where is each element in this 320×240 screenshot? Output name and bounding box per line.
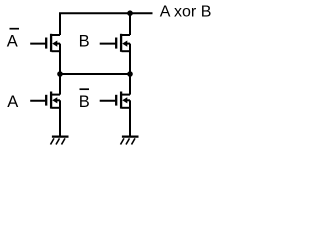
wire: middle rail	[60, 73, 130, 75]
transistor Q4 (gate B-bar, bottom-right)	[100, 92, 130, 109]
svg-text:A xor B: A xor B	[160, 4, 212, 21]
svg-text:B: B	[79, 33, 90, 51]
svg-text:A: A	[7, 93, 18, 111]
ground (right)	[121, 137, 139, 145]
transistor Q3 (gate A, bottom-left)	[30, 92, 60, 109]
wire: left column Q1 source to Q3 drain through middle rail	[59, 44, 61, 95]
node: output junction dot	[127, 10, 133, 16]
wire: output rail from Q1 drain to output	[60, 13, 153, 35]
wire: Q4 source to ground	[129, 100, 131, 135]
wire: Q3 source to ground	[59, 100, 61, 135]
svg-text:B: B	[79, 93, 90, 111]
label A-bar (gate of Q1)	[7, 29, 19, 51]
wire: right column Q2 source to Q4 drain	[129, 44, 131, 95]
transistor Q1 (gate A-bar, top-left)	[30, 34, 60, 52]
node: middle rail left junction dot	[57, 71, 63, 77]
ground (left)	[51, 137, 69, 145]
wire: Q2 drain lead	[129, 13, 131, 35]
svg-text:A: A	[7, 33, 18, 51]
label B-bar (gate of Q4)	[79, 89, 90, 111]
transistor Q2 (gate B, top-right)	[100, 34, 130, 52]
node: middle rail right junction dot	[127, 71, 133, 77]
